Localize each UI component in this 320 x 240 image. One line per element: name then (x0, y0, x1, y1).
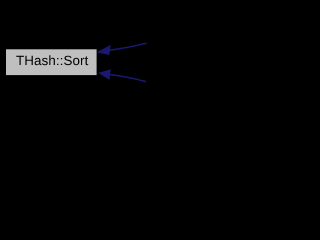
label THash::Sort (16, 55, 88, 65)
arrowhead: upper caller edge (98, 46, 111, 55)
wire: upper caller edge (110, 43, 147, 50)
arrowhead: lower caller edge (99, 70, 110, 80)
wire: lower caller edge (110, 75, 146, 82)
node box THash::Sort (6, 49, 98, 76)
